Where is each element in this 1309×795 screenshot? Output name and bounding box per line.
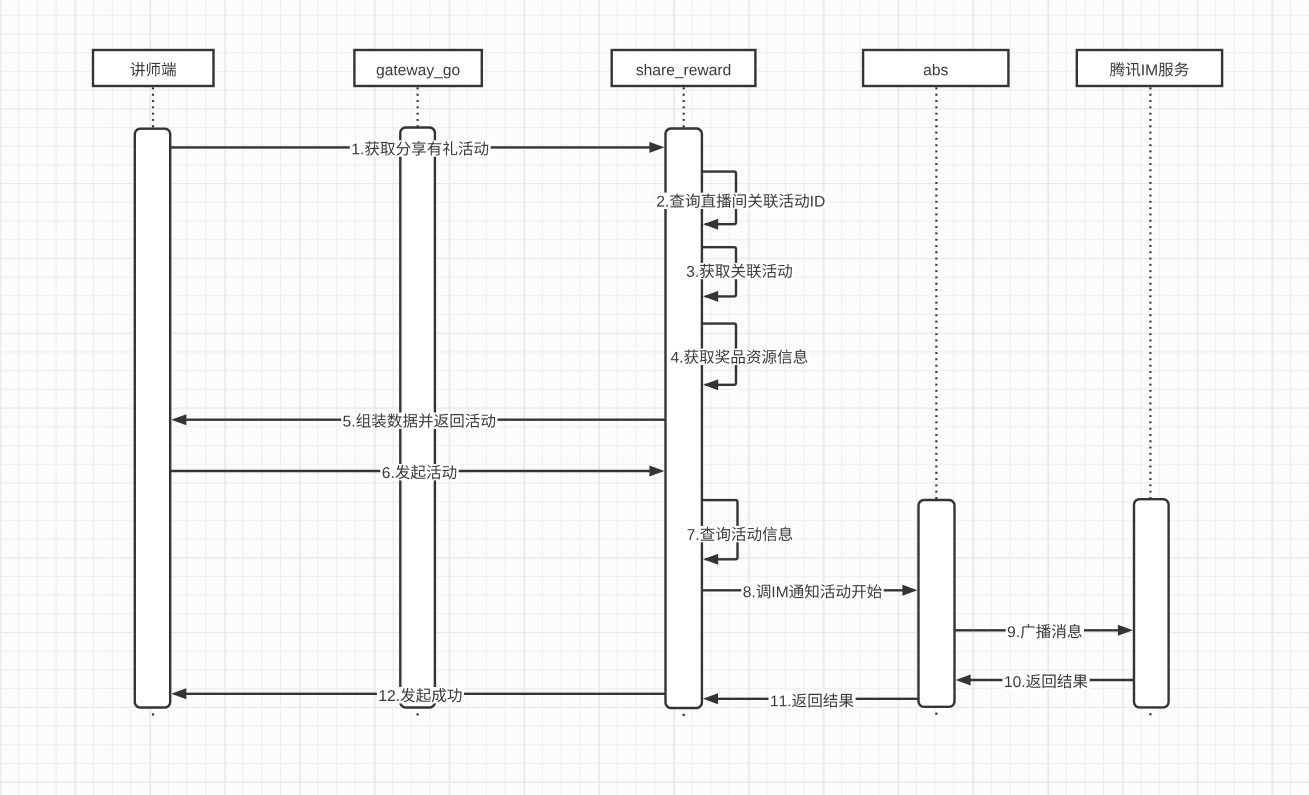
actor box share_reward xyxy=(612,50,756,86)
message 1 xyxy=(170,146,661,148)
actor box 讲师端 xyxy=(93,50,214,86)
activation bar abs xyxy=(919,500,955,707)
lifeline 3 dotted xyxy=(683,88,685,129)
label 6.发起活动 xyxy=(380,464,458,480)
label 8.调IM通知活动开始 xyxy=(741,583,884,599)
activation bar gateway_go xyxy=(400,128,435,708)
actor box abs xyxy=(863,50,1008,86)
lifeline 4 dotted xyxy=(935,88,937,501)
activation bar share_reward xyxy=(666,129,702,709)
label 9.广播消息 xyxy=(1006,623,1084,639)
label 5.组装数据并返回活动 xyxy=(341,413,497,429)
lifeline 2 dotted xyxy=(417,88,419,128)
label 4.获取奖品资源信息 xyxy=(669,349,810,365)
message 4 self loop xyxy=(702,324,736,385)
message 3 self loop xyxy=(702,247,736,296)
label 3.获取关联活动 xyxy=(685,263,795,279)
label 1.获取分享有礼活动 xyxy=(350,140,491,156)
actor box gateway_go xyxy=(354,50,481,86)
message 12 xyxy=(174,693,665,695)
lifeline 1 dotted xyxy=(152,88,154,129)
message 7 self loop xyxy=(702,500,738,559)
message 8 xyxy=(702,589,915,591)
label 7.查询活动信息 xyxy=(685,526,795,542)
label 2.查询直播间关联活动ID xyxy=(655,193,827,209)
activation bar tencent IM xyxy=(1134,499,1169,707)
label 10.返回结果 xyxy=(1003,673,1090,689)
message 2 self loop xyxy=(702,172,736,225)
lifeline 5 dotted xyxy=(1149,88,1151,500)
message 5 xyxy=(174,419,665,421)
activation bar lecturer xyxy=(135,129,170,708)
message 9 xyxy=(955,629,1130,631)
label 12.发起成功 xyxy=(377,687,464,703)
message 10 xyxy=(959,679,1134,681)
actor box 腾讯IM服务 xyxy=(1077,50,1222,86)
message 6 xyxy=(170,470,661,472)
message 11 xyxy=(706,698,919,700)
label 11.返回结果 xyxy=(769,692,856,708)
